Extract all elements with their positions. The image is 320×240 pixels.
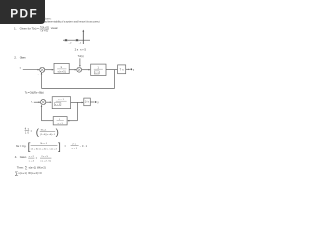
- svg-text:): ): [56, 127, 59, 138]
- svg-text:achieve stability of a system: achieve stability of a system and hence …: [45, 19, 100, 23]
- block G1 fraction bar: [57, 68, 66, 70]
- fraction bar: [40, 28, 49, 30]
- arrowhead into block G5: [82, 102, 84, 104]
- wire G2 to block G3: [106, 69, 117, 71]
- arrowhead into block G1: [52, 69, 54, 71]
- svg-text:(s+6): (s+6): [41, 30, 49, 33]
- equation row B frac2 bar: [71, 144, 79, 146]
- equation row B bar: [31, 144, 58, 146]
- svg-text:s+1: s+1: [72, 148, 78, 150]
- block G1 box: [54, 63, 69, 73]
- svg-text:[: [: [28, 142, 31, 153]
- svg-text:Ns+1: Ns+1: [41, 130, 47, 132]
- wire G5 to output: [90, 101, 94, 103]
- pole-zero plot imaginary axis: [82, 31, 84, 44]
- block G2 denominator box: [94, 71, 99, 74]
- feedback block H box: [53, 117, 67, 125]
- equation row A small bar: [25, 129, 30, 131]
- arrowhead into H block: [67, 120, 69, 122]
- pole X at -2: [65, 39, 67, 41]
- svg-text:−0.1: −0.1: [80, 145, 88, 148]
- imaginary axis arrowhead: [82, 30, 84, 32]
- disturbance wire down into S2: [79, 58, 81, 66]
- arrowhead into summing junction 1: [38, 69, 40, 71]
- PDF badge: [0, 0, 45, 24]
- svg-text:s(s+5): s(s+5): [58, 72, 66, 74]
- svg-text:s+1: s+1: [58, 123, 64, 125]
- svg-text:s+5: s+5: [55, 104, 60, 106]
- svg-text:s(s+1) W(s+2)=0: s(s+1) W(s+2)=0: [18, 171, 42, 175]
- summing junction S2: [77, 67, 82, 72]
- block G4 fraction bar: [56, 100, 67, 102]
- arrowhead down into S2: [79, 65, 81, 67]
- arrowhead up into S1: [41, 73, 43, 75]
- arrowhead into block G4: [50, 101, 52, 103]
- svg-text:Given for T(s) =: Given for T(s) =: [20, 27, 39, 31]
- feedback 1 bottom wire: [42, 87, 115, 89]
- svg-text:r,: r,: [20, 66, 22, 70]
- pole X at -1: [76, 39, 78, 41]
- item 4 frac1 bar: [28, 157, 34, 159]
- arrowhead up into S3: [41, 105, 43, 107]
- feedback 2 drop wire: [76, 102, 78, 120]
- svg-text:θa = Cg·: θa = Cg·: [16, 144, 27, 148]
- feedback 2 wire H to left: [42, 120, 54, 122]
- svg-text:]: ]: [58, 142, 61, 153]
- svg-text:s(s+1) W(s+2): s(s+1) W(s+2): [29, 165, 46, 169]
- svg-text:Then:: Then:: [17, 165, 24, 169]
- feedback 2 return wire up to S3: [41, 105, 43, 120]
- svg-text:2.: 2.: [14, 56, 17, 60]
- wire G3 to output: [126, 68, 130, 70]
- wire input to summing junction 1: [23, 69, 39, 71]
- feedback 1 return wire up to S1: [41, 73, 43, 88]
- svg-text:s+5: s+5: [95, 72, 99, 74]
- arrowhead at output: [128, 69, 130, 71]
- equation row A nested bar: [40, 131, 55, 133]
- wire G4 to block G5: [71, 101, 83, 103]
- feedback 2 wire to H block: [68, 120, 77, 122]
- feedback 1 drop wire: [114, 70, 116, 89]
- svg-text:10: 10: [25, 132, 29, 135]
- arrowhead into block G2: [89, 69, 91, 71]
- pole-zero plot real axis: [63, 39, 90, 41]
- svg-text:(1+4)(s+4)+1: (1+4)(s+4)+1: [40, 134, 56, 136]
- svg-text:Td(s): Td(s): [78, 55, 84, 58]
- svg-text:(s+2.5): (s+2.5): [41, 160, 52, 162]
- item 4 frac2 bar: [40, 157, 51, 159]
- summing junction S3: [41, 100, 46, 105]
- block G5 box: [84, 98, 91, 106]
- arrowhead into S3: [39, 101, 41, 103]
- svg-text:1.: 1.: [14, 27, 17, 31]
- svg-text:Tc = G(s)Ta + B(s): Tc = G(s)Ta + B(s): [25, 91, 44, 95]
- wire S2 to block G2: [82, 69, 90, 71]
- svg-text:Given: Given: [20, 56, 26, 60]
- summing junction S1: [40, 67, 45, 72]
- wire G1 to summing junction 2: [69, 69, 75, 71]
- svg-text:s+4: s+4: [29, 160, 35, 162]
- output node dot: [130, 68, 132, 70]
- svg-text:visual: visual: [51, 26, 58, 30]
- svg-text:PDF: PDF: [10, 6, 37, 20]
- wire input to summing junction S3: [34, 101, 40, 103]
- output node dot 2: [95, 101, 97, 103]
- svg-text:Ns+1: Ns+1: [41, 143, 48, 145]
- block G2 fraction bar: [94, 68, 103, 70]
- svg-text:Given: Given: [20, 155, 27, 159]
- block G4 box: [52, 97, 70, 109]
- H block fraction bar: [57, 120, 64, 122]
- block G3 box: [118, 65, 126, 74]
- wire S1 to block G1: [45, 69, 53, 71]
- block G2 box: [91, 64, 106, 75]
- svg-text:2s s+5: 2s s+5: [75, 48, 87, 52]
- wire S3 to block G4: [46, 101, 51, 103]
- arrowhead into summing junction 2: [75, 69, 77, 71]
- svg-text:s+1: s+1: [58, 99, 64, 101]
- block G4 denominator box: [54, 103, 61, 106]
- svg-text:(1+3)(s+4(s.s))+2: (1+3)(s+4(s.s))+2: [31, 148, 58, 150]
- svg-text:4.: 4.: [15, 155, 18, 159]
